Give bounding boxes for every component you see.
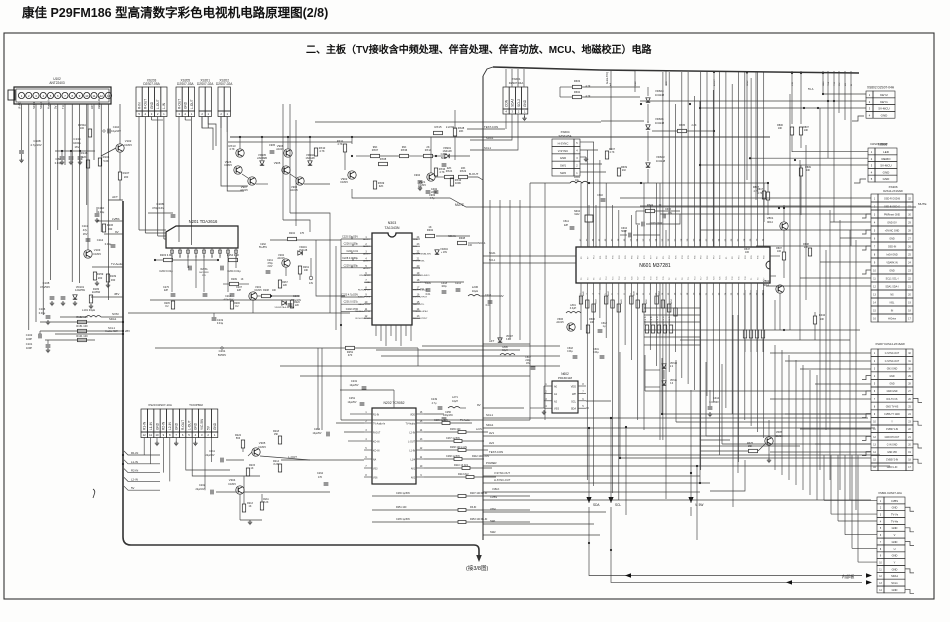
resistor RX28: [453, 128, 456, 136]
svg-text:L271: L271: [452, 395, 458, 399]
wire verticals mid bottom with elbows: [619, 352, 621, 458]
svg-text:SDA: SDA: [593, 503, 600, 507]
xs307 left hooks: [862, 376, 871, 380]
svg-text:AV1: AV1: [411, 468, 416, 471]
svg-text:GND: GND: [560, 156, 566, 160]
diode VD201: [298, 251, 302, 255]
svg-text:L-OUT: L-OUT: [187, 420, 191, 430]
svg-text:2.2/1W: 2.2/1W: [446, 125, 455, 129]
svg-text:VD611: VD611: [670, 380, 678, 382]
svg-text:KEY2: KEY2: [880, 93, 888, 97]
transistor V905: [282, 166, 290, 174]
wire from XS202 to transistor rows: [221, 117, 248, 187]
svg-text:5.6K: 5.6K: [103, 159, 109, 163]
svg-text:0.01μ: 0.01μ: [98, 210, 105, 214]
resistor R267b: [278, 280, 281, 288]
N202 left pins: [364, 413, 372, 415]
diode VD611: [662, 381, 666, 385]
svg-text:100K: 100K: [455, 181, 461, 185]
svg-text:C112: C112: [97, 238, 104, 242]
svg-text:L-IN: L-IN: [162, 102, 166, 109]
svg-text:V. 5W: V. 5W: [695, 503, 703, 507]
svg-text:RCH-INPUT: RCH-INPUT: [358, 289, 371, 291]
transistor V902: [348, 171, 356, 179]
wire y348: [155, 347, 345, 349]
svg-text:WOOFER-4UFO: WOOFER-4UFO: [413, 275, 430, 277]
svg-text:C214: C214: [225, 295, 231, 298]
svg-text:GND: GND: [889, 270, 895, 273]
svg-text:TCKIP802: TCKIP802: [189, 403, 203, 407]
svg-text:PWReset GND: PWReset GND: [884, 214, 900, 217]
svg-text:220P: 220P: [431, 190, 437, 194]
svg-text:内部板: 内部板: [842, 573, 855, 580]
svg-text:C251: C251: [349, 396, 356, 400]
svg-text:1K: 1K: [249, 505, 252, 508]
svg-text:C320: C320: [425, 282, 432, 285]
ground stubs under tckip: [156, 438, 158, 442]
svg-text:4.7K: 4.7K: [229, 147, 235, 151]
svg-text:22P: 22P: [164, 289, 169, 292]
svg-text:16V: 16V: [526, 363, 531, 365]
svg-text:康佳 P29FM186 型高清数字彩色电视机电路原理图(2/: 康佳 P29FM186 型高清数字彩色电视机电路原理图(2/8): [22, 5, 328, 20]
svg-text:GND: GND: [523, 99, 527, 107]
svg-text:L-OUT: L-OUT: [156, 99, 160, 109]
svg-text:TV-Audio: TV-Audio: [460, 419, 471, 422]
svg-text:KO-IN: KO-IN: [373, 451, 380, 453]
ground xs604: [580, 156, 586, 158]
svg-text:SCL1: SCL1: [108, 326, 115, 330]
svg-text:0.01μ: 0.01μ: [39, 311, 46, 315]
arrow SDA: [586, 497, 591, 503]
transistor V202: [282, 259, 290, 267]
svg-text:L-OUT: L-OUT: [408, 442, 415, 444]
svg-text:GND: GND: [175, 422, 179, 430]
svg-text:V605: V605: [776, 430, 783, 434]
svg-text:C211: C211: [209, 450, 215, 453]
svg-text:LO: LO: [845, 83, 847, 86]
svg-text:5V-A: 5V-A: [808, 88, 814, 91]
svg-text:C238 1μ/50V: C238 1μ/50V: [446, 455, 460, 458]
svg-text:11: 11: [149, 433, 152, 437]
svg-text:22K: 22K: [295, 305, 300, 307]
transistor V926: [236, 149, 244, 157]
svg-text:V: V: [894, 533, 896, 537]
svg-text:R213 AV2: R213 AV2: [458, 473, 469, 476]
svg-text:U: U: [894, 547, 896, 551]
ground hook xs802: [852, 116, 864, 121]
svg-text:XS801 D2S07-32A: XS801 D2S07-32A: [878, 491, 902, 495]
svg-text:VSS: VSS: [554, 408, 559, 411]
svg-text:LVBS: LVBS: [112, 217, 119, 221]
resistor R602: [573, 95, 582, 98]
svg-text:二、主板（TV接收含中频处理、伴音处理、伴音功放、MCU、地: 二、主板（TV接收含中频处理、伴音处理、伴音功放、MCU、地磁校正）电路: [306, 43, 653, 56]
svg-text:100: 100: [777, 250, 782, 253]
svg-text:VDD: VDD: [571, 386, 576, 389]
svg-text:22K: 22K: [283, 285, 288, 287]
svg-text:L1/4: L1/4: [411, 460, 416, 462]
svg-text:C226 0.039μ: C226 0.039μ: [344, 243, 359, 246]
svg-text:C237 1μ/50V: C237 1μ/50V: [446, 437, 460, 440]
N601 bottom wires: [580, 290, 582, 330]
svg-text:WP: WP: [572, 393, 576, 396]
svg-text:C254: C254: [314, 427, 321, 431]
diode VD901: [445, 154, 449, 158]
svg-text:SCL1: SCL1: [32, 102, 36, 109]
svg-text:10K: 10K: [590, 321, 595, 324]
svg-text:C213: C213: [485, 294, 492, 297]
transistor V904: [296, 177, 304, 185]
wire x530 down: [529, 183, 531, 420]
svg-text:LCH-OUTPUT: LCH-OUTPUT: [413, 297, 428, 299]
svg-text:GND: GND: [892, 567, 898, 571]
resistor R109: [106, 274, 109, 282]
svg-text:CON: CON: [504, 99, 508, 107]
diode VD202: [282, 301, 286, 305]
svg-text:GN3 GND: GN3 GND: [887, 368, 898, 370]
svg-text:R603: R603: [574, 79, 581, 83]
svg-text:C261: C261: [219, 349, 226, 353]
wire vertical bundle x283: [282, 104, 284, 220]
svg-text:45V: 45V: [114, 292, 119, 296]
svg-text:GND: GND: [892, 526, 898, 530]
svg-text:RX08: RX08: [380, 157, 387, 161]
resistor R159: [93, 272, 96, 280]
svg-text:L1-IN: L1-IN: [131, 460, 138, 464]
resistor RX07: [371, 154, 380, 157]
svg-text:GND: GND: [883, 177, 891, 181]
svg-text:Audio-Inv: Audio-Inv: [47, 97, 51, 109]
svg-text:IN: IN: [891, 310, 894, 313]
wires diodes vd610: [645, 369, 660, 371]
op-amp N602 PD16D118 box: [552, 381, 578, 413]
svg-text:R3-IN: R3-IN: [470, 506, 477, 509]
svg-text:XS306: XS306: [888, 185, 897, 189]
svg-text:C1815: C1815: [340, 180, 348, 184]
svg-text:N601 M37281: N601 M37281: [639, 263, 671, 269]
svg-text:C231: C231: [351, 379, 358, 383]
svg-text:H-SYNC-OUT: H-SYNC-OUT: [494, 478, 511, 482]
wire bottom horizontals mid: [280, 365, 560, 367]
svg-text:200: 200: [124, 175, 129, 179]
svg-text:22μ/16V: 22μ/16V: [206, 454, 215, 457]
wire vertical x697: [696, 466, 698, 540]
svg-text:GND: GND: [892, 506, 898, 510]
svg-text:R152 100: R152 100: [76, 315, 88, 319]
svg-text:GND: GND: [892, 540, 898, 544]
svg-text:R203 3.9K: R203 3.9K: [160, 253, 173, 257]
svg-text:96K: 96K: [373, 145, 378, 149]
arrowhead on sda1 wire: [625, 573, 631, 577]
arrow SCL: [608, 497, 613, 503]
resistor RX36: [400, 154, 409, 157]
wire y183 bus: [530, 182, 570, 184]
resistor RX15: [434, 131, 443, 134]
svg-text:C235 1μ/50V: C235 1μ/50V: [396, 518, 410, 521]
svg-text:R683 4.7K: R683 4.7K: [663, 315, 665, 325]
svg-text:R109: R109: [110, 274, 117, 278]
svg-text:16V: 16V: [83, 232, 88, 236]
wires transistor rows: [239, 137, 241, 149]
svg-text:SZST-05A: SZST-05A: [559, 134, 572, 138]
wire verticals left of xs307: [774, 345, 776, 470]
svg-text:KO-IN: KO-IN: [373, 442, 380, 444]
svg-text:ACT: ACT: [90, 103, 94, 109]
svg-text:470μ/16V: 470μ/16V: [152, 206, 164, 210]
wire verticals x318: [317, 348, 319, 430]
junction dots bottom signals: [588, 427, 590, 429]
resistor R209: [230, 282, 239, 285]
svg-text:10K: 10K: [461, 166, 466, 170]
svg-text:POWER: POWER: [486, 461, 497, 465]
svg-text:12: 12: [143, 433, 147, 437]
svg-text:A1015: A1015: [556, 321, 564, 324]
svg-text:SDA1: SDA1: [891, 574, 898, 578]
svg-text:100P: 100P: [26, 346, 32, 350]
svg-text:R1-IN: R1-IN: [373, 415, 379, 417]
svg-text:R1-IN: R1-IN: [143, 421, 147, 430]
sub-board top boundary thick line: [493, 67, 600, 70]
svg-text:+5V/NC GND: +5V/NC GND: [885, 230, 900, 233]
svg-text:16V: 16V: [75, 145, 80, 149]
svg-text:CVBS-TY GND: CVBS-TY GND: [884, 414, 900, 416]
svg-text:GND: GND: [889, 238, 895, 241]
xs307 right hooks: [913, 398, 922, 402]
svg-text:R251 100: R251 100: [396, 506, 407, 509]
svg-text:R680 4.7K: R680 4.7K: [645, 315, 647, 325]
wires v201: [223, 283, 229, 285]
N601 bottom resistor row: [579, 296, 582, 304]
wire bus lower: [228, 141, 352, 143]
svg-text:AFT: AFT: [112, 195, 118, 199]
svg-text:10: 10: [155, 433, 159, 437]
svg-text:CVBSY1-IN: CVBSY1-IN: [886, 429, 898, 431]
svg-text:MUTE: MUTE: [918, 202, 927, 206]
svg-text:R205: R205: [164, 303, 170, 305]
svg-text:+470μ/35V: +470μ/35V: [223, 299, 234, 301]
svg-text:SCL1 SCL-I: SCL1 SCL-I: [886, 278, 899, 281]
svg-text:1N4148: 1N4148: [656, 159, 666, 163]
svg-text:200: 200: [98, 276, 103, 280]
svg-text:R682 4.7K: R682 4.7K: [657, 315, 659, 325]
connector XS201 D2S07-02A: [199, 87, 205, 111]
svg-text:R104: R104: [103, 155, 110, 159]
N601 top wires rising: [580, 183, 582, 241]
svg-text:C905: C905: [269, 143, 276, 147]
svg-text:L806: L806: [502, 346, 508, 349]
svg-text:100P: 100P: [26, 337, 32, 341]
svg-text:4.7μ/16V: 4.7μ/16V: [30, 143, 41, 147]
svg-text:OSD-IN: OSD-IN: [888, 246, 897, 249]
svg-text:C225 50μ/25V: C225 50μ/25V: [342, 236, 358, 239]
wire v202 down: [285, 267, 287, 276]
svg-text:SCL1: SCL1: [478, 241, 486, 245]
svg-text:InGA GND: InGA GND: [886, 254, 898, 257]
wires r806 r807: [791, 135, 793, 152]
svg-text:R1-IN: R1-IN: [131, 451, 138, 455]
svg-text:V103: V103: [94, 248, 101, 252]
svg-text:RCH-OUTPUT: RCH-OUTPUT: [413, 318, 428, 320]
svg-text:C229 0.039μ: C229 0.039μ: [344, 264, 359, 267]
svg-text:IF-AG: IF-AG: [18, 102, 22, 109]
svg-text:A1015: A1015: [290, 188, 298, 192]
svg-text:10K: 10K: [272, 290, 277, 292]
resistor R104: [98, 158, 101, 166]
wire top mid verticals: [505, 69, 507, 87]
svg-text:SCL: SCL: [615, 503, 621, 507]
svg-text:330: 330: [111, 278, 116, 282]
svg-text:V305: V305: [259, 441, 266, 445]
svg-text:GND: GND: [155, 422, 159, 430]
transistor V102: [116, 144, 124, 152]
resistor R220: [290, 300, 293, 308]
connector XS803 D2S07-05AW: [868, 148, 875, 155]
svg-text:12A05W: 12A05W: [75, 288, 86, 292]
crystal X601: [585, 215, 593, 222]
resistor RX10: [314, 148, 317, 156]
svg-text:VD202/7A 4.4v 45A: VD202/7A 4.4v 45A: [274, 306, 294, 309]
svg-text:SCL1: SCL1: [891, 581, 898, 585]
svg-text:10μH: 10μH: [502, 350, 508, 352]
op-amp N202 TC9052 box: [372, 408, 416, 484]
squiggle mark bottom left: [93, 489, 95, 498]
transistor V802: [776, 285, 784, 293]
wires v921: [430, 137, 432, 173]
svg-text:XS307 D2S14-2X16AW: XS307 D2S14-2X16AW: [875, 342, 905, 346]
svg-text:R253 100 R1-IN: R253 100 R1-IN: [470, 518, 488, 521]
svg-text:R-OUT: R-OUT: [177, 99, 181, 109]
svg-text:VD603: VD603: [656, 155, 665, 159]
svg-text:12K: 12K: [82, 155, 87, 159]
svg-text:CVBS: CVBS: [490, 495, 497, 499]
wires into xs306: [620, 197, 871, 199]
resistor R261: [298, 266, 301, 274]
svg-text:SDA1: SDA1: [39, 101, 43, 109]
svg-text:10K: 10K: [806, 169, 811, 172]
N303 right pins: [412, 238, 420, 240]
svg-text:0.01μ: 0.01μ: [55, 161, 62, 165]
wire 5v l271: [424, 413, 444, 415]
svg-text:C/N-INPUT: C/N-INPUT: [359, 275, 371, 277]
svg-text:470: 470: [348, 353, 353, 357]
transistor V921: [427, 173, 435, 181]
wires crystal cluster: [588, 230, 590, 247]
svg-text:C1815: C1815: [228, 482, 236, 486]
svg-text:5V-MCU: 5V-MCU: [878, 107, 889, 111]
svg-text:4.7K: 4.7K: [586, 95, 591, 98]
svg-text:5V: 5V: [131, 486, 135, 490]
wires from U102 pins: [21, 104, 23, 150]
svg-text:C203 0.01μ: C203 0.01μ: [159, 269, 173, 273]
svg-text:C102: C102: [26, 333, 33, 337]
svg-text:100: 100: [80, 127, 85, 130]
left boundary bottom labels: [482, 200, 484, 540]
wire y122 long: [315, 121, 601, 123]
resistor RX11: [343, 144, 346, 152]
svg-text:R-OUT: R-OUT: [144, 99, 148, 109]
svg-text:22μ/16V: 22μ/16V: [196, 488, 205, 491]
svg-text:V102: V102: [125, 139, 132, 143]
svg-text:C1815: C1815: [254, 289, 262, 292]
svg-text:SCL2: SCL2: [517, 99, 521, 107]
resistor RX34: [434, 168, 437, 176]
svg-text:CVBS: CVBS: [891, 499, 898, 503]
svg-text:5V-MCU: 5V-MCU: [880, 164, 891, 168]
svg-text:22P: 22P: [237, 289, 242, 292]
wire big loop right of mcu: [774, 300, 776, 330]
wire horizontals upper mid: [454, 110, 456, 129]
svg-text:3.6V: 3.6V: [506, 339, 511, 341]
wires right of N303: [420, 281, 464, 283]
svg-text:L1-IN: L1-IN: [409, 451, 415, 453]
MUTE wire: [352, 189, 916, 207]
svg-text:100: 100: [468, 244, 473, 247]
resistor R201: [346, 346, 355, 349]
svg-text:C-SYNC-OUT: C-SYNC-OUT: [885, 361, 900, 363]
svg-text:SVM: SVM: [112, 312, 119, 316]
svg-text:R101 100: R101 100: [76, 334, 88, 338]
svg-text:9014: 9014: [767, 220, 773, 224]
svg-text:TV-Vs: TV-Vs: [891, 513, 899, 517]
svg-text:C1815: C1815: [258, 445, 266, 449]
svg-text:13: 13: [107, 94, 111, 98]
svg-text:AUDIO: AUDIO: [363, 238, 370, 241]
svg-text:V-SYNC: V-SYNC: [558, 149, 568, 153]
svg-text:V-M: V-M: [792, 82, 794, 86]
connector XS202 D2S07-02A: [218, 87, 224, 111]
svg-text:R107: R107: [123, 171, 130, 175]
svg-text:R267: R267: [282, 282, 288, 284]
svg-text:A1015: A1015: [277, 257, 285, 260]
wire sda vertical: [588, 428, 590, 503]
resistor RX14: [424, 154, 433, 157]
svg-text:VDARK IN: VDARK IN: [886, 262, 898, 265]
svg-text:47μ: 47μ: [83, 228, 88, 232]
svg-text:OSD-B OSD-G: OSD-B OSD-G: [884, 206, 900, 209]
svg-text:L2-IN: L2-IN: [409, 433, 415, 435]
svg-text:9V: 9V: [115, 230, 119, 234]
svg-text:0.01μ: 0.01μ: [593, 352, 599, 354]
svg-text:R151 100: R151 100: [76, 324, 88, 328]
svg-text:C262: C262: [260, 243, 266, 246]
svg-text:C601: C601: [593, 348, 599, 351]
connector XS802 D2S07-04A: [866, 91, 873, 98]
svg-text:GND: GND: [194, 422, 198, 430]
transistor V606: [567, 323, 575, 331]
svg-text:R210 1K AV1: R210 1K AV1: [454, 464, 469, 467]
wires into xs801 from left: [823, 455, 825, 500]
svg-text:R209: R209: [231, 278, 237, 281]
svg-text:AV2: AV2: [411, 477, 416, 480]
svg-text:R684 4.7K: R684 4.7K: [669, 315, 671, 325]
arrow to 3/8 sheet: [476, 555, 482, 562]
svg-text:GND: GND: [881, 113, 889, 117]
wires v605: [700, 450, 748, 452]
transistor V605b: [765, 437, 773, 445]
sub-board outline corner: [483, 67, 493, 76]
svg-text:VDD: VDD: [410, 415, 415, 417]
svg-text:4.7K: 4.7K: [754, 190, 759, 193]
svg-text:TV-Audio-In: TV-Audio-In: [373, 423, 386, 426]
wires under N303: [375, 325, 377, 336]
N601 bottom pins: [580, 283, 582, 290]
svg-text:H-SYNC: H-SYNC: [558, 141, 569, 145]
svg-text:R-IN: R-IN: [137, 102, 141, 109]
diode VD101: [73, 295, 77, 299]
svg-text:R202: R202: [289, 232, 296, 235]
svg-text:10K: 10K: [459, 129, 464, 133]
connector XS203 D2S07-05A: [136, 87, 142, 111]
resistor R107: [118, 172, 121, 180]
